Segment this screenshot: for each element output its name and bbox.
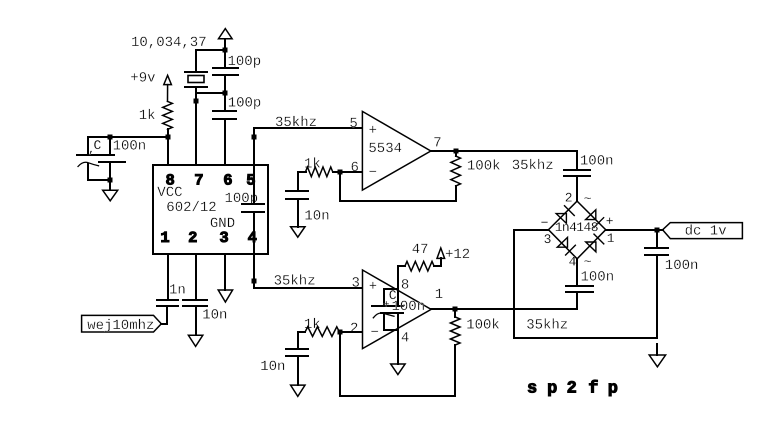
- svg-text:8: 8: [401, 277, 409, 293]
- svg-text:5: 5: [349, 116, 357, 132]
- svg-text:100k: 100k: [466, 318, 500, 334]
- svg-text:,: ,: [88, 143, 95, 157]
- svg-text:4: 4: [248, 229, 257, 247]
- svg-text:3: 3: [544, 232, 552, 247]
- svg-text:1k: 1k: [139, 108, 156, 124]
- svg-text:2: 2: [565, 191, 573, 206]
- svg-text:+12: +12: [445, 247, 470, 263]
- svg-text:100n: 100n: [113, 138, 147, 154]
- svg-text:+: +: [369, 279, 377, 295]
- svg-text:p: p: [547, 379, 557, 398]
- svg-text:7: 7: [194, 171, 203, 189]
- svg-text:+: +: [606, 214, 614, 229]
- svg-text:2: 2: [350, 321, 358, 337]
- svg-text:3: 3: [219, 229, 228, 247]
- svg-text:+9v: +9v: [130, 70, 155, 86]
- svg-text:35khz: 35khz: [512, 158, 554, 174]
- svg-text:~: ~: [584, 254, 592, 269]
- svg-text:100n: 100n: [665, 258, 699, 274]
- svg-text:1n4148: 1n4148: [555, 220, 598, 235]
- svg-text:+: +: [383, 300, 390, 312]
- svg-text:f: f: [588, 379, 598, 398]
- svg-text:1: 1: [435, 287, 443, 303]
- svg-text:100p: 100p: [228, 95, 262, 111]
- svg-text:~: ~: [584, 191, 592, 206]
- svg-text:4: 4: [401, 331, 409, 347]
- svg-text:6: 6: [223, 171, 232, 189]
- svg-text:10,034,37: 10,034,37: [131, 35, 207, 51]
- svg-text:1: 1: [607, 231, 615, 246]
- svg-text:10n: 10n: [304, 208, 329, 224]
- svg-text:−: −: [371, 325, 379, 341]
- svg-text:4: 4: [569, 254, 577, 269]
- svg-text:wej10mhz: wej10mhz: [87, 318, 154, 334]
- svg-text:+: +: [369, 123, 377, 139]
- svg-text:VCC: VCC: [157, 185, 182, 201]
- svg-text:35khz: 35khz: [274, 274, 316, 290]
- svg-text:1: 1: [160, 229, 169, 247]
- svg-text:100k: 100k: [467, 159, 501, 175]
- svg-text:2: 2: [188, 229, 197, 247]
- svg-text:100n: 100n: [580, 153, 614, 169]
- svg-text:47: 47: [412, 242, 429, 258]
- svg-text:100n: 100n: [392, 299, 426, 315]
- svg-text:p: p: [608, 379, 618, 398]
- svg-text:1n: 1n: [169, 282, 186, 298]
- svg-text:5534: 5534: [368, 141, 402, 157]
- svg-text:602/12: 602/12: [166, 200, 216, 216]
- svg-text:35khz: 35khz: [275, 115, 317, 131]
- svg-text:35khz: 35khz: [526, 318, 568, 334]
- svg-text:7: 7: [433, 136, 441, 152]
- svg-text:10n: 10n: [202, 308, 227, 324]
- svg-text:10n: 10n: [260, 359, 285, 375]
- svg-text:3: 3: [352, 275, 360, 291]
- svg-text:−: −: [541, 216, 549, 231]
- svg-text:2: 2: [567, 379, 577, 398]
- svg-text:dc 1v: dc 1v: [685, 223, 727, 239]
- svg-text:100p: 100p: [228, 54, 262, 70]
- svg-text:s: s: [527, 379, 537, 398]
- svg-text:100n: 100n: [581, 270, 615, 286]
- svg-text:−: −: [369, 165, 377, 181]
- svg-text:6: 6: [351, 160, 359, 176]
